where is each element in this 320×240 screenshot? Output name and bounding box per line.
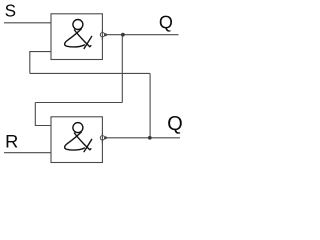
U1 output pin dot (104, 33, 107, 36)
wire feedback from Qbar horizontal (30, 72, 150, 74)
wire S input (4, 22, 51, 24)
input label R (7, 135, 18, 148)
nand gate U2 body (51, 117, 102, 163)
U1 right edge over bubble (101, 30, 103, 40)
input label S (5, 5, 15, 17)
wire R input (4, 152, 51, 154)
wire feedback from Q horizontal (35, 102, 122, 104)
U1 output bubble (100, 33, 104, 37)
U2 output bubble (100, 136, 104, 140)
output label Q (inverted) (168, 116, 182, 134)
U2 ampersand symbol (65, 123, 92, 152)
node Q junction dot (121, 33, 125, 37)
wire U2 upper input (35, 103, 51, 126)
wire Q output (105, 34, 179, 36)
U2 right edge over bubble (101, 133, 103, 143)
wire feedback from Q vertical (121, 35, 123, 103)
wire feedback from Qbar vertical (149, 73, 151, 137)
nand gate U1 body (51, 14, 102, 60)
wire U1 lower input (30, 52, 51, 74)
wire Qbar output (105, 137, 181, 139)
node Qbar junction dot (148, 136, 152, 140)
output label Q (160, 16, 172, 32)
U2 output pin dot (104, 136, 107, 139)
U1 ampersand symbol (65, 20, 92, 49)
